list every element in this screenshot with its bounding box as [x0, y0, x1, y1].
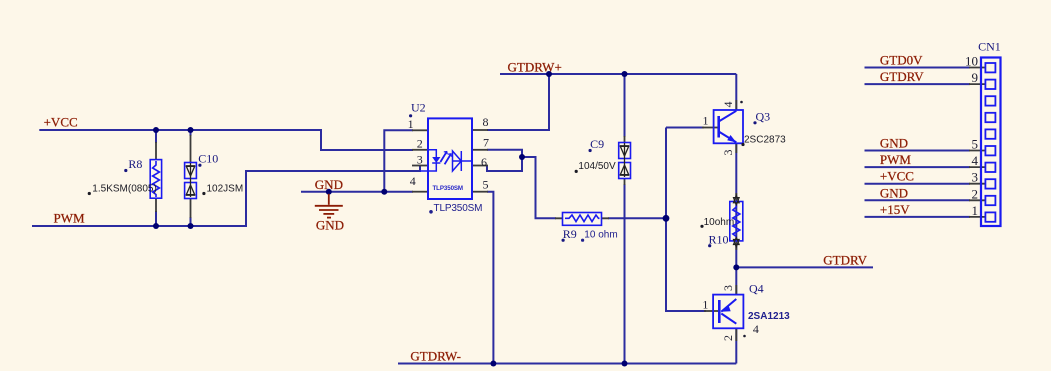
U2 pin number 4: [410, 174, 416, 188]
wire R8 bottom branch: [155, 211, 157, 226]
C9 pin stubs: [624, 136, 626, 185]
Q4 pin number 2 rotated: [721, 335, 746, 341]
wire CN1 pin5: [865, 150, 971, 152]
CN1 pin stubs: [969, 68, 985, 217]
wire pin1 to pin4 net: [384, 130, 413, 191]
wire Q3 base: [666, 127, 704, 129]
wire pin8 to GTDRW+: [487, 74, 549, 130]
value 2SA1213: [748, 311, 790, 322]
designator C9: [589, 137, 605, 152]
transistor Q4 2SA1213: [713, 295, 743, 329]
U2 pin 2 stub: [412, 149, 428, 151]
wire Q3 collector from GTDRW+: [735, 74, 737, 110]
svg-text:GTD0V: GTD0V: [880, 53, 923, 68]
junction GTDRW-/C9: [622, 361, 628, 367]
designator R10: [708, 233, 728, 248]
wire CN1 pin10: [865, 67, 971, 69]
svg-text:1: 1: [408, 117, 414, 131]
R9 pin stubs: [555, 217, 609, 219]
transistor Q3 2SC2873: [714, 110, 743, 143]
wire C9 bottom branch: [624, 184, 626, 364]
svg-text:6: 6: [481, 155, 487, 169]
designator C10: [198, 151, 218, 166]
net label GND lower: [316, 218, 344, 233]
svg-text:4: 4: [753, 322, 759, 336]
svg-text:5: 5: [483, 178, 489, 192]
Q4 base pin stub: [704, 310, 719, 312]
junction +VCC/R8: [153, 127, 159, 133]
wire GND net: [301, 191, 413, 193]
svg-text:+VCC: +VCC: [880, 169, 914, 184]
svg-text:10ohm: 10ohm: [704, 217, 735, 228]
Q4 pin number 1: [702, 298, 708, 312]
Q4 pin number 4: [753, 322, 759, 336]
svg-text:1: 1: [703, 114, 709, 128]
wire CN1 pin1: [865, 216, 971, 218]
junction GTDRW+/C9: [622, 71, 628, 77]
svg-text:102JSM: 102JSM: [207, 183, 244, 194]
wire CN1 pin4: [865, 166, 971, 168]
svg-text:R8: R8: [128, 157, 142, 171]
wire GTDRV rail: [736, 266, 873, 268]
junction +VCC/C10: [188, 127, 194, 133]
net label PWM pin4: [880, 152, 912, 167]
svg-text:Q4: Q4: [749, 281, 764, 295]
CN1 pin number 3: [972, 170, 979, 185]
svg-text:GND: GND: [880, 185, 908, 200]
CN1 pin number 2: [972, 186, 979, 201]
ground symbol GND: [315, 194, 343, 218]
wire +VCC rail: [39, 130, 413, 150]
junction GND symbol node: [326, 189, 332, 195]
junction R9 output node: [663, 215, 670, 222]
CN1 pin number 4: [972, 153, 979, 168]
svg-text:2: 2: [721, 335, 735, 341]
net label +VCC pin3: [880, 169, 914, 184]
net label GTDRV pin9: [880, 69, 924, 84]
svg-text:U2: U2: [411, 101, 426, 115]
CN1 pin number 1: [972, 203, 979, 218]
net label GTDRW-: [410, 349, 461, 364]
value 104/50V: [575, 161, 616, 173]
U2 pin number 3: [417, 153, 423, 167]
svg-text:GND: GND: [316, 218, 344, 233]
wire CN1 pin3: [865, 183, 971, 185]
svg-text:TLP350SM: TLP350SM: [433, 185, 464, 192]
value 102JSM: [202, 183, 243, 195]
value TLP350SM inside U2: [433, 185, 464, 192]
Q4 emitter pin stub: [735, 328, 737, 341]
U2 pin number 1: [408, 117, 414, 131]
junction GTDRW+/pin8: [546, 71, 552, 77]
wire PWM rail: [32, 166, 420, 227]
value 10 ohm R9: [581, 230, 618, 242]
svg-text:104/50V: 104/50V: [578, 161, 616, 172]
Q3 collector pin stub: [735, 100, 737, 110]
svg-text:+15V: +15V: [880, 202, 910, 217]
Q3 pin number 4 rotated: [721, 101, 743, 108]
svg-text:10 ohm: 10 ohm: [584, 230, 617, 241]
svg-text:3: 3: [972, 170, 979, 185]
wire R9 to mid node: [608, 217, 666, 219]
net label +VCC: [44, 114, 78, 129]
Q3 base pin stub: [702, 127, 718, 129]
svg-text:GND: GND: [880, 136, 908, 151]
svg-text:1.5KSM(0805): 1.5KSM(0805): [92, 183, 156, 194]
wire CN1 pin2: [865, 199, 971, 201]
svg-text:TLP350SM: TLP350SM: [434, 203, 483, 214]
R10 pin stubs: [735, 193, 737, 250]
wire Q3 emitter to R10 to GTDRV node: [735, 143, 737, 294]
wire mid vertical Q3 base to Q4 base: [666, 128, 706, 312]
wire node to R9: [522, 157, 556, 218]
Q4 pin number 3 rotated: [721, 285, 735, 291]
junction PWM/C10: [188, 223, 194, 229]
svg-text:1: 1: [972, 203, 979, 218]
Q3 emitter pin stub: [735, 143, 737, 153]
WIRES_START: [32, 68, 970, 364]
wire CN1 pin9: [865, 83, 971, 85]
optocoupler U2 TLP350SM: [420, 118, 472, 199]
svg-text:2: 2: [417, 137, 423, 151]
svg-text:2SC2873: 2SC2873: [744, 134, 786, 145]
U2 pin number 5: [483, 178, 489, 192]
Q3 pin number 3 rotated: [721, 150, 735, 156]
junction PWM/R8: [153, 223, 159, 229]
svg-text:GTDRW-: GTDRW-: [410, 349, 461, 364]
resistor R8: [150, 160, 161, 199]
value 10ohm R10: [700, 217, 734, 228]
svg-text:R9: R9: [563, 227, 577, 241]
resistor R10: [730, 195, 743, 247]
svg-text:CN1: CN1: [978, 40, 1001, 54]
U2 pin number 6: [481, 155, 487, 169]
svg-text:C9: C9: [590, 137, 604, 151]
R8 pin stubs: [155, 142, 157, 212]
svg-text:10: 10: [965, 54, 978, 69]
svg-text:3: 3: [721, 285, 735, 291]
wire pin7 branch: [487, 150, 522, 171]
svg-text:4: 4: [721, 102, 735, 108]
svg-text:R10: R10: [709, 233, 729, 247]
svg-text:4: 4: [410, 174, 416, 188]
designator U2: [409, 101, 426, 118]
svg-text:PWM: PWM: [880, 152, 912, 167]
value 1.5KSM(0805): [88, 183, 157, 195]
U2 pin 5 stub: [472, 191, 488, 193]
svg-text:5: 5: [972, 137, 979, 152]
svg-text:4: 4: [972, 153, 979, 168]
CN1 pin number 9: [972, 70, 979, 85]
net label GTDRV out: [823, 253, 867, 268]
wire Q4 emitter to GTDRW-: [735, 328, 737, 363]
svg-text:1: 1: [702, 298, 708, 312]
U2 pin 4 stub: [412, 191, 428, 193]
CN1 pin number 10: [965, 54, 978, 69]
C10 pin stubs: [190, 135, 192, 218]
junction GTDRW-/pin5: [490, 361, 496, 367]
wire C10 bottom branch: [190, 217, 192, 226]
wire GTDRW- rail: [398, 363, 736, 365]
wire C10 top branch: [190, 130, 192, 136]
wire GTDRW+ rail: [500, 73, 736, 75]
net label PWM: [54, 211, 86, 226]
U2 pin 6 stub: [472, 165, 488, 167]
svg-text:PWM: PWM: [54, 211, 86, 226]
svg-text:GTDRW+: GTDRW+: [508, 60, 562, 75]
designator R9: [562, 227, 577, 242]
value TLP350SM under U2: [429, 203, 482, 214]
net label GTD0V: [880, 53, 923, 68]
net label GND pin5: [880, 136, 908, 151]
U2 pin 3 stub: [412, 165, 428, 167]
U2 pin number 8: [483, 115, 489, 129]
wire C9 top branch: [624, 74, 626, 137]
svg-text:Q3: Q3: [756, 110, 771, 124]
designator CN1: [978, 40, 1001, 54]
svg-text:+VCC: +VCC: [44, 114, 78, 129]
svg-text:3: 3: [417, 153, 423, 167]
Q4 collector pin stub: [735, 285, 737, 295]
svg-text:3: 3: [721, 150, 735, 156]
junction GTDRV node: [733, 264, 739, 270]
junction pin7 node: [519, 154, 525, 160]
svg-text:9: 9: [972, 70, 979, 85]
svg-text:7: 7: [483, 136, 489, 150]
U2 pin 8 stub: [472, 129, 488, 131]
svg-text:GTDRV: GTDRV: [823, 253, 867, 268]
capacitor C9: [619, 143, 631, 179]
svg-text:GTDRV: GTDRV: [880, 69, 924, 84]
connector CN1: [981, 58, 1001, 227]
wire pin5 branch: [487, 192, 493, 364]
U2 pin 7 stub: [472, 149, 488, 151]
svg-text:GND: GND: [315, 177, 343, 192]
U2 pin number 7: [483, 136, 489, 150]
COMP_START: [156, 68, 985, 342]
svg-text:8: 8: [483, 115, 489, 129]
U2 pin 1 stub: [412, 129, 428, 131]
svg-text:2: 2: [972, 186, 979, 201]
wire R8 top branch: [155, 130, 157, 143]
resistor R9: [563, 213, 602, 226]
Q3 pin number 1: [703, 114, 709, 128]
net label GND pin2: [880, 185, 908, 200]
designator R8: [124, 157, 142, 172]
net label GND upper: [315, 177, 343, 192]
svg-text:C10: C10: [198, 151, 218, 165]
capacitor C10: [185, 163, 197, 199]
designator Q3: [753, 110, 770, 125]
designator Q4: [749, 281, 764, 295]
CN1 pin number 5: [972, 137, 979, 152]
net label GTDRW+: [508, 60, 562, 75]
value 2SC2873: [741, 134, 786, 146]
junction pin4 net: [381, 189, 387, 195]
net label +15V pin1: [880, 202, 910, 217]
U2 pin number 2: [417, 137, 423, 151]
svg-text:2SA1213: 2SA1213: [748, 311, 790, 322]
